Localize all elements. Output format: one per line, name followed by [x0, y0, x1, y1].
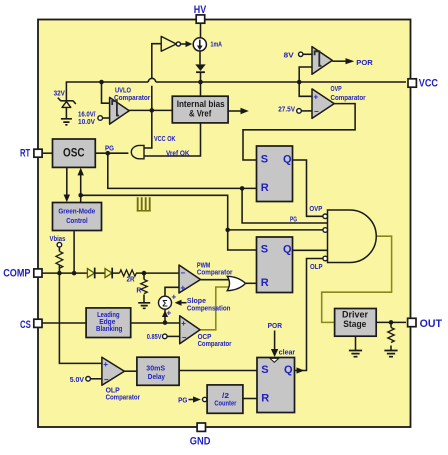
svg-text:−: −	[182, 333, 187, 342]
svg-text:OVP: OVP	[331, 86, 342, 93]
svg-text:UVLO: UVLO	[115, 87, 131, 94]
svg-text:OLP: OLP	[310, 264, 323, 271]
svg-text:S: S	[261, 154, 268, 166]
svg-text:27.5V: 27.5V	[278, 107, 295, 114]
svg-text:Comparator: Comparator	[331, 95, 366, 102]
svg-text:Edge: Edge	[99, 319, 115, 326]
svg-text:8V: 8V	[284, 53, 294, 60]
svg-text:OSC: OSC	[63, 148, 85, 160]
svg-text:Slope: Slope	[187, 298, 206, 305]
svg-text:COMP: COMP	[3, 267, 30, 279]
svg-text:1mA: 1mA	[211, 41, 223, 48]
svg-text:PG: PG	[290, 216, 297, 223]
svg-text:Comparator: Comparator	[114, 95, 151, 102]
svg-text:Σ: Σ	[162, 299, 168, 309]
svg-text:POR: POR	[356, 60, 373, 67]
svg-text:RT: RT	[20, 148, 30, 160]
svg-text:R: R	[136, 287, 141, 294]
svg-text:+: +	[181, 319, 186, 328]
svg-text:Q: Q	[283, 244, 292, 256]
svg-text:CS: CS	[20, 319, 31, 331]
svg-text:Comparator: Comparator	[197, 270, 233, 277]
svg-text:2R: 2R	[127, 276, 135, 283]
svg-text:R: R	[261, 392, 269, 404]
svg-text:VCC OK: VCC OK	[154, 136, 176, 143]
svg-text:HV: HV	[194, 4, 207, 16]
svg-text:& Vref: & Vref	[189, 109, 212, 120]
svg-text:R: R	[261, 277, 269, 289]
svg-text:Comparator: Comparator	[198, 341, 232, 348]
svg-text:+: +	[314, 93, 319, 102]
svg-text:+: +	[167, 309, 172, 318]
svg-text:Q: Q	[284, 364, 293, 376]
svg-text:Comparator: Comparator	[106, 394, 141, 401]
svg-text:+: +	[103, 360, 108, 369]
svg-text:OVP: OVP	[309, 206, 322, 213]
svg-text:32V: 32V	[54, 91, 66, 98]
svg-text:−: −	[181, 269, 186, 278]
svg-text:clear: clear	[279, 350, 296, 357]
svg-text:Delay: Delay	[148, 374, 165, 381]
svg-text:S: S	[261, 364, 268, 376]
svg-text:Stage: Stage	[343, 319, 366, 330]
svg-text:OUT: OUT	[420, 318, 443, 330]
svg-text:Green-Mode: Green-Mode	[58, 209, 95, 216]
svg-text:−: −	[104, 375, 109, 384]
svg-text:30mS: 30mS	[146, 365, 165, 372]
svg-text:PG: PG	[105, 145, 114, 152]
svg-text:POR: POR	[268, 323, 282, 330]
svg-text:Compensation: Compensation	[187, 306, 231, 313]
svg-text:16.0V/: 16.0V/	[78, 111, 96, 118]
svg-text:+: +	[172, 293, 177, 302]
svg-text:Counter: Counter	[214, 400, 236, 407]
svg-text:10.0V: 10.0V	[78, 119, 95, 126]
svg-text:Control: Control	[66, 218, 88, 225]
svg-text:Q: Q	[283, 154, 292, 166]
svg-text:−: −	[314, 107, 319, 116]
svg-text:+: +	[181, 284, 186, 293]
svg-text:5.0V: 5.0V	[70, 377, 85, 384]
svg-text:S: S	[261, 244, 268, 256]
svg-text:Vref OK: Vref OK	[166, 151, 190, 158]
svg-text:Blanking: Blanking	[96, 326, 122, 333]
svg-text:Vbias: Vbias	[50, 236, 66, 243]
svg-text:VCC: VCC	[419, 78, 438, 90]
svg-text:0.85V: 0.85V	[147, 334, 162, 341]
svg-text:PG: PG	[178, 397, 188, 404]
svg-text:R: R	[261, 182, 269, 194]
svg-text:GND: GND	[190, 436, 211, 448]
svg-text:/2: /2	[222, 393, 229, 400]
